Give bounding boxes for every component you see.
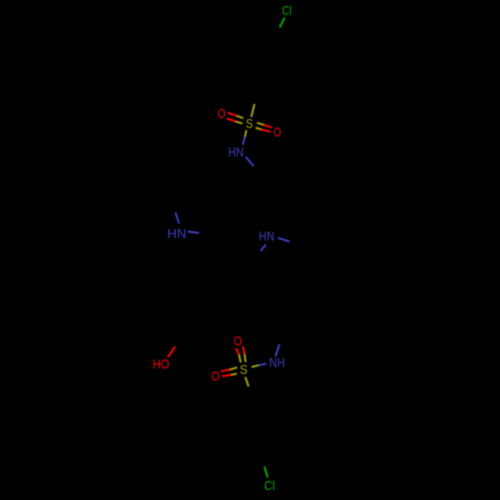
double bond S=O left line 2 (O half red): [227, 119, 236, 122]
bond S-C aryl (bottom sulfonyl, S half, downward): [245, 377, 248, 387]
svg-text:S: S: [246, 116, 253, 131]
bond N-C (top sulfonamide to ethyl, N half): [246, 157, 254, 166]
bond S-N (bottom sulfonamide, N half): [259, 364, 267, 366]
bond N-C7a (right indole, N half, rightward): [278, 238, 289, 242]
double bond S=O left line 2 (O half red): [222, 375, 231, 376]
bond S-N (bottom sulfonamide, S half): [252, 365, 260, 367]
svg-text:S: S: [240, 362, 248, 377]
bond N-C (bottom sulfonamide to ethyl, N half, up-right): [275, 344, 279, 356]
double bond S=O right line 1 (S half olive): [257, 123, 264, 125]
bond N-C2 (right indole, N half, down-left): [261, 245, 267, 252]
bond S-N (top sulfonamide, S half): [245, 130, 247, 137]
double bond S=O right line 1 (O half red): [264, 125, 272, 128]
double bond S=O top line 1 (O half red): [236, 348, 239, 355]
double bond S=O left line 1 (O half red): [228, 113, 237, 116]
double bond S=O left line 1 (O half red): [221, 370, 230, 372]
svg-text:HN: HN: [228, 144, 244, 159]
svg-text:HN: HN: [259, 229, 275, 244]
bond N-C7a (left indole, N half, rightward): [188, 232, 200, 234]
double bond S=O top line 1 (S half olive): [239, 355, 241, 363]
svg-text:O: O: [218, 106, 226, 121]
bond S-N (top sulfonamide, N half): [243, 137, 245, 145]
bond N-C2 (left indole, N half, upward): [176, 213, 180, 224]
double bond S=O right line 2 (S half olive): [256, 128, 262, 130]
double bond S=O top line 2 (O half red): [243, 346, 245, 354]
svg-text:Cl: Cl: [282, 3, 292, 18]
double bond S=O left line 1 (S half olive): [230, 367, 237, 369]
bond O-C aryl (phenol, O half): [168, 347, 175, 357]
double bond S=O right line 2 (O half red): [261, 130, 270, 132]
svg-text:NH: NH: [269, 355, 285, 370]
double bond S=O top line 2 (S half olive): [245, 355, 246, 363]
svg-text:HN: HN: [167, 226, 186, 241]
bond C-Cl (top, Cl half): [280, 18, 285, 28]
svg-text:O: O: [234, 333, 242, 348]
svg-text:Cl: Cl: [264, 478, 275, 493]
double bond S=O left line 2 (S half olive): [236, 122, 243, 124]
bond S-C aryl (top sulfonyl, S half): [251, 104, 254, 117]
svg-text:O: O: [274, 125, 281, 140]
bond C-Cl (bottom, Cl half): [265, 467, 268, 478]
svg-text:HO: HO: [153, 356, 170, 371]
double bond S=O left line 1 (S half olive): [237, 116, 244, 118]
svg-text:O: O: [211, 369, 219, 384]
double bond S=O left line 2 (S half olive): [231, 374, 237, 375]
